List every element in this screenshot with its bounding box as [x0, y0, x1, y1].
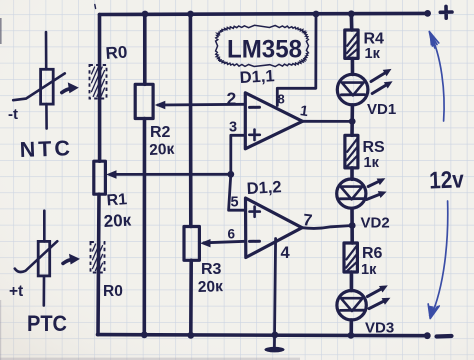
svg-text:RS: RS: [363, 139, 386, 156]
svg-text:6: 6: [228, 227, 236, 242]
svg-text:R6: R6: [362, 245, 383, 262]
svg-text:12v: 12v: [429, 166, 465, 194]
svg-text:1к: 1к: [361, 262, 377, 278]
svg-text:PTC: PTC: [27, 311, 67, 336]
svg-text:2: 2: [227, 89, 237, 109]
svg-text:LM358: LM358: [227, 36, 302, 64]
svg-text:VD1: VD1: [367, 101, 396, 118]
svg-text:20к: 20к: [198, 278, 224, 296]
svg-text:1к: 1к: [364, 155, 380, 171]
svg-text:+t: +t: [9, 283, 23, 300]
svg-text:4: 4: [281, 244, 291, 262]
svg-text:R3: R3: [201, 261, 222, 278]
svg-text:R2: R2: [150, 124, 171, 141]
svg-text:VD3: VD3: [365, 320, 394, 337]
svg-text:8: 8: [278, 92, 285, 107]
svg-text:VD2: VD2: [361, 215, 390, 232]
svg-text:NTC: NTC: [19, 136, 73, 162]
svg-text:-t: -t: [8, 106, 18, 123]
svg-text:D1,2: D1,2: [246, 178, 282, 198]
svg-text:20к: 20к: [103, 211, 132, 231]
svg-text:5: 5: [231, 195, 239, 211]
svg-text:D1,1: D1,1: [239, 67, 275, 87]
svg-text:7: 7: [302, 211, 313, 230]
svg-text:20к: 20к: [149, 141, 175, 159]
svg-text:R0: R0: [105, 43, 128, 63]
svg-text:1к: 1к: [365, 46, 381, 62]
svg-text:R1: R1: [106, 191, 128, 209]
svg-text:R4: R4: [364, 31, 385, 48]
svg-text:R0: R0: [103, 283, 123, 300]
svg-text:3: 3: [229, 120, 237, 136]
